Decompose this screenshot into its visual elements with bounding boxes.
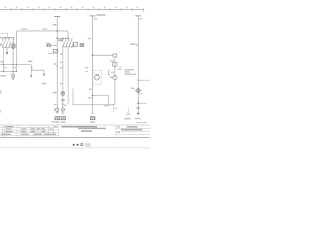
contactor Q1 pole 2	[6, 38, 8, 48]
title block row line 2	[0, 127, 59, 129]
wire left rail y37.8	[0, 37, 13, 39]
wire Q2 bottom rail	[62, 46, 74, 48]
node ruler column ticks	[11, 8, 144, 12]
label long function text row	[62, 126, 98, 127]
wire top border ruler line	[0, 8, 144, 10]
contactor Q2 pole 3	[69, 38, 71, 48]
wire enclosure bottom and left edge	[73, 89, 115, 105]
valve Y2 circle on x63	[61, 108, 64, 111]
node supply entry bus T-bar	[54, 16, 60, 18]
arrow end x31	[30, 75, 32, 77]
contactor Q1 pole 1	[3, 38, 5, 48]
title block top line	[0, 124, 150, 126]
pressure gauge circle on x115	[113, 76, 117, 80]
wire chain x115 down	[114, 57, 116, 105]
pager control gray pill	[85, 143, 91, 146]
label big cell lower text	[81, 130, 92, 132]
label text below x138	[135, 118, 141, 119]
title block row line 5	[0, 134, 59, 136]
wire stub with arrow below Q1	[6, 48, 8, 53]
wire center rail top y38.2	[57, 37, 68, 39]
label wire numbers mid text 2	[85, 71, 88, 72]
node supply entry L1 T-bar	[90, 15, 96, 17]
node arrow head below Q1	[6, 52, 8, 55]
component S2 below rail on x13	[12, 74, 15, 77]
fuse F1 body	[47, 44, 50, 46]
label bus tick mid	[53, 63, 56, 64]
contactor Q2 pole 4	[72, 38, 74, 48]
component marks x63 y99	[61, 99, 65, 100]
node dots rail B	[3, 71, 17, 72]
label text right of entry x115	[110, 60, 114, 61]
label title text above block x52	[52, 121, 57, 122]
arrow end x44	[43, 74, 45, 76]
label text below branch corner	[106, 105, 111, 106]
motor enclosure dashed box	[93, 70, 101, 84]
wire branch x31	[30, 65, 32, 78]
bracket symbol x108	[108, 70, 110, 74]
fuse F1 stub left of bus	[47, 45, 57, 47]
node junction x138 y103	[137, 102, 139, 104]
wire rail A y64.5	[0, 64, 31, 66]
auxiliary block diagonal	[74, 43, 78, 47]
node junction dots left rail	[5, 37, 15, 38]
label marks x63 y83	[60, 83, 63, 84]
switch S1 marks on x31	[31, 67, 33, 70]
label text block right column line2	[124, 71, 129, 72]
label bus tick text	[53, 24, 57, 25]
label bracket and text x138 y44	[136, 43, 138, 46]
label x3.5 text upper	[0, 61, 3, 62]
label title block small texts left	[1, 126, 57, 135]
motor M1 circle	[95, 75, 100, 80]
node junction bus/center rail	[56, 37, 58, 39]
label text block right column line1	[124, 69, 134, 70]
terminal X1 hatch box bus	[55, 116, 60, 119]
label text x42 y83	[42, 83, 47, 84]
label text above loop 2	[42, 28, 48, 30]
label small marks left edge of text block	[119, 66, 121, 67]
fuse F2 box at end of branch	[113, 54, 117, 57]
title block vertical separators	[2, 125, 115, 137]
wire stub right y93.5	[138, 93, 142, 95]
title block row line 4	[0, 132, 59, 134]
label text right of box x115	[118, 69, 122, 70]
label F1 text	[46, 43, 51, 44]
wire loop from left cluster to center cluster	[16, 31, 68, 48]
component tick on bus y104	[54, 104, 57, 105]
label X3 text below	[90, 121, 95, 122]
label right column row2 text	[121, 129, 142, 131]
window bottom edge line	[0, 147, 150, 149]
lamp H1 circle with X	[61, 91, 65, 95]
label drawing title text center	[78, 128, 106, 129]
node bus tick y113	[56, 112, 59, 114]
terminal X2 hatch box x63	[61, 116, 66, 119]
wire L1 vertical x92.5	[92, 16, 94, 114]
label faint left margin marks	[0, 91, 1, 113]
node ruler column numbers	[5, 7, 139, 9]
contact symbol x63 y67	[60, 67, 63, 68]
tick x63 y62	[60, 62, 62, 63]
node junction L1/branch y55	[92, 54, 94, 56]
relay K1 diagonal	[53, 50, 57, 53]
meter P1 circle with hatch	[11, 38, 16, 50]
label Q1 text	[0, 43, 2, 46]
wire main bus x57	[56, 17, 58, 114]
title block row line 3	[0, 129, 59, 131]
wire rail B y71.5	[0, 71, 16, 73]
label wire tick L2	[139, 18, 142, 19]
arrow end x13	[12, 78, 14, 80]
label corner text above block right	[136, 122, 147, 123]
label text block right column line3	[124, 74, 135, 75]
wire branch y55 to x115	[93, 54, 114, 56]
label wire tick L1	[94, 18, 97, 19]
pager control dot 1	[73, 144, 75, 146]
label text above title block x104	[104, 105, 107, 106]
label marks x128 y112	[127, 112, 130, 114]
solenoid Y1 circle symbol	[135, 89, 142, 93]
relay K1 coil box on bus	[53, 49, 57, 53]
node tick x92.5 y113	[91, 112, 94, 114]
label K2 text left of cluster	[58, 39, 62, 41]
node junction x138 y80	[138, 80, 139, 81]
node junction x92.5 y95.5	[92, 95, 94, 97]
node dots center rail	[62, 38, 69, 39]
valve Y3 symbol on bus	[54, 108, 59, 111]
wire branch x13	[12, 50, 14, 80]
node bus junction y66	[57, 66, 58, 67]
contactor Q2 pole 1	[63, 38, 65, 48]
wire branch y80 right from x138	[138, 79, 150, 81]
node tick x63 y113	[62, 112, 65, 114]
label X2 text below	[61, 121, 66, 122]
label right column row3 left tiny text	[117, 132, 120, 133]
contact marks x63 upper	[60, 53, 63, 54]
label Y1 text left	[131, 88, 135, 89]
label text left of S2	[0, 75, 6, 77]
wire branch y103 right	[138, 102, 146, 104]
label text x112 y108	[115, 108, 118, 109]
node end dot x138 y113.8	[137, 113, 139, 115]
wire branch y70 to x44	[31, 70, 44, 76]
node supply entry L2 T-bar	[135, 15, 141, 17]
wire loop left leg lower x16.4	[15, 48, 17, 72]
contactor Q2 pole 2	[66, 38, 68, 48]
node dots rail A	[3, 64, 17, 65]
wire Q1 bottom rail	[2, 47, 11, 49]
label M1 text	[96, 74, 99, 75]
wire branch x68 from contactor	[67, 48, 69, 104]
auxiliary contact block Q2 box	[73, 42, 77, 47]
node junction bus/loop	[56, 30, 58, 32]
node F1 left dot	[46, 45, 47, 46]
title block right column row lines	[116, 128, 150, 134]
wire stub x113.5 above title	[113, 105, 115, 112]
switch box on x115	[113, 63, 117, 67]
title block bottom border	[0, 136, 150, 138]
label marks x92.5 y89	[89, 89, 92, 90]
pager control square outline	[81, 144, 83, 146]
pager control dot 2	[77, 144, 79, 146]
label box with X right of cluster	[80, 44, 84, 47]
wire stub x128 above flag	[127, 107, 129, 112]
wire branch y95.5 to x108.5	[93, 96, 109, 104]
label text left of x138 y44	[131, 44, 136, 45]
wire L2 vertical x138	[137, 16, 139, 114]
ground bar below K1	[48, 53, 51, 54]
label right column row1 text	[127, 126, 138, 127]
component bars x138 y107.5	[137, 107, 140, 108]
terminal X0 stub box top-left	[0, 33, 8, 37]
label text left of L1 wire y38	[88, 38, 91, 39]
contactor Q1 pole 3	[9, 38, 11, 48]
label right column row1 left tiny text	[117, 126, 120, 127]
label text left of junction	[88, 97, 92, 98]
label x31 text	[28, 61, 32, 63]
contact marks x13	[14, 67, 16, 68]
terminal X3 hatch box x92.5	[90, 116, 95, 119]
wire branch x3.5	[3, 48, 5, 71]
label text x125 y118	[124, 118, 130, 119]
wire branch x63 from contactor	[62, 48, 64, 113]
label L1 wire text	[97, 14, 106, 16]
label bus text y92	[53, 92, 57, 93]
label text right of bracket	[111, 72, 114, 73]
label marks x63 y105	[64, 105, 66, 106]
marks left of gauge	[109, 76, 112, 77]
label wire numbers mid text	[85, 67, 88, 68]
label X1 text below	[55, 121, 60, 122]
contact marks x3.5	[4, 67, 6, 68]
label text above loop	[21, 28, 28, 30]
node junction x63 y104	[62, 104, 63, 105]
